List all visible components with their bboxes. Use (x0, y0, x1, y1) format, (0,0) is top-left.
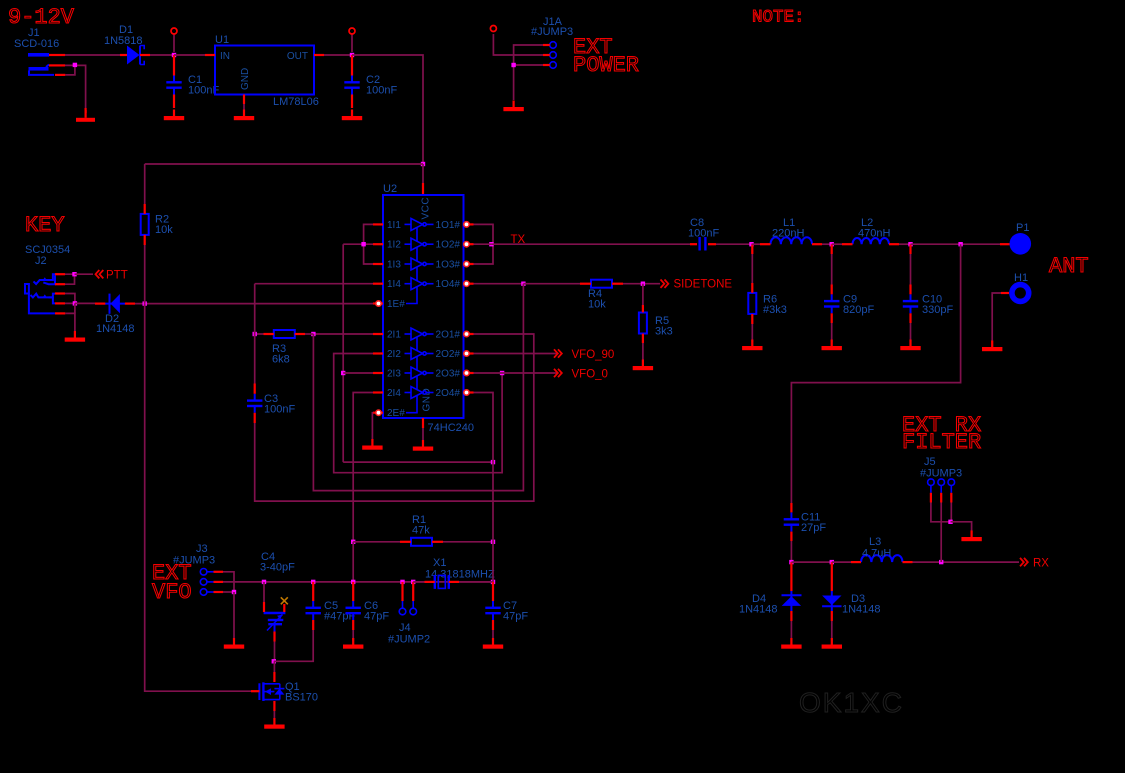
pin U2 1O3# (464, 263, 474, 265)
wire C10 to ground (910, 323, 912, 342)
pin J1A-2 (543, 54, 550, 56)
svg-text:POWER: POWER (573, 53, 639, 78)
wire 2O4 node down to osc (492, 462, 494, 582)
resistor R1 47k (411, 538, 432, 546)
diode D1 1N5818 (104, 24, 144, 65)
capacitor C7 47pF (485, 600, 528, 623)
svg-text:4.7uH: 4.7uH (862, 548, 891, 560)
svg-text:#JUMP3: #JUMP3 (531, 26, 573, 38)
svg-text:3-40pF: 3-40pF (260, 562, 295, 574)
pin U2 1I3 (373, 263, 383, 265)
net label VFO_0 (554, 369, 562, 377)
svg-text:1I3: 1I3 (387, 260, 401, 271)
pin J2-2 (55, 283, 65, 285)
wire TX to C8 (491, 243, 690, 245)
svg-text:3k3: 3k3 (655, 326, 673, 338)
junction C10 tap (908, 242, 912, 246)
wire RX tap down to C11 (791, 244, 960, 503)
ground U2 (413, 440, 433, 451)
svg-text:ANT: ANT (1049, 254, 1089, 279)
pin J2-5 (55, 312, 65, 314)
junction R5 tap (641, 282, 645, 286)
wire J5 pin3 down (950, 503, 952, 522)
wire 2O2# to VFO_90 (474, 353, 558, 355)
pin U2 2I3 (373, 372, 383, 374)
svg-text:#3k3: #3k3 (763, 304, 787, 316)
svg-text:74HC240: 74HC240 (428, 422, 474, 434)
svg-text:2O2#: 2O2# (436, 349, 461, 360)
wire C8 to L1 (716, 243, 752, 245)
svg-text:1O1#: 1O1# (436, 220, 461, 231)
connector P1 (antenna) (1000, 243, 1010, 245)
wire R3 to 2I1 (313, 333, 373, 335)
junction J1A pins 1+3 (511, 63, 515, 67)
buffer gate 7 of U2 (405, 367, 434, 379)
pin J5-3 (950, 485, 952, 492)
junction J1 pin2/pin3 (73, 63, 77, 67)
diode D3 1N4148 (822, 591, 880, 616)
ground U1 (234, 110, 254, 121)
ground J1A (503, 101, 523, 112)
ground R6 (742, 340, 762, 351)
inductor L2 470nH (853, 238, 890, 244)
pin U2 2I2 (373, 352, 383, 354)
svg-text:10k: 10k (588, 299, 606, 311)
junction TX (489, 242, 493, 246)
wire L3 to RX label (913, 561, 1020, 563)
open wire end marker (171, 28, 177, 34)
pin J4-1 (402, 601, 404, 608)
pin U2 2E# (373, 412, 383, 414)
wire R1 left (353, 541, 400, 543)
pin U2 2I4 (373, 391, 383, 393)
junction C1 node (172, 53, 176, 57)
svg-text:J5: J5 (924, 456, 936, 468)
pin U2 VCC (422, 183, 424, 195)
wire oscillator node (223, 581, 493, 583)
svg-text:100nF: 100nF (688, 228, 719, 240)
wire key line to U2 1E# (135, 303, 373, 305)
svg-text:L3: L3 (869, 536, 881, 548)
junction VCC/R2 node (421, 162, 425, 166)
junction R3 right (311, 332, 315, 336)
capacitor C10 330pF (903, 294, 954, 317)
wire 2O3# to VFO_0 (474, 372, 558, 374)
ground J1 (76, 110, 95, 122)
wire to L3 (832, 561, 851, 563)
ground Q1 (264, 718, 284, 729)
buffer gate 8 of U2 (405, 387, 434, 399)
ground R5 (633, 360, 653, 371)
svg-text:27pF: 27pF (801, 522, 826, 534)
pin J1A-3 (543, 64, 550, 66)
svg-text:FILTER: FILTER (902, 430, 981, 455)
ground C7 (483, 638, 503, 649)
wire J2 sleeve to ground (65, 313, 75, 331)
svg-text:RX: RX (1033, 558, 1049, 570)
ground J2 (65, 331, 85, 342)
wire down to U2 VCC pin (422, 164, 424, 183)
wire J1A pin1 down (514, 45, 543, 65)
connector J2 SCJ0354 (25, 244, 70, 313)
capacitor C2 100nF (344, 74, 397, 97)
svg-text:2I4: 2I4 (387, 388, 401, 399)
wire 9-12V jack to D1 (65, 54, 120, 56)
pin U2 1I1 (373, 223, 383, 225)
junction C2 node (350, 53, 354, 57)
wire J5 pin1 to pin3 (931, 503, 951, 522)
svg-text:TX: TX (511, 234, 526, 246)
inductor L1 220nH (771, 237, 813, 244)
pin U2 GND (422, 418, 424, 428)
junction 1I2/tie (361, 242, 365, 246)
svg-text:SCJ0354: SCJ0354 (25, 244, 70, 256)
svg-text:OK1XC: OK1XC (799, 687, 904, 718)
svg-text:330pF: 330pF (922, 304, 953, 316)
wire 2E# to ground (371, 413, 374, 439)
svg-text:10k: 10k (155, 224, 173, 236)
ground C1 (164, 110, 184, 121)
ground D3 (822, 638, 842, 649)
svg-text:KEY: KEY (25, 213, 65, 238)
svg-text:J4: J4 (399, 622, 411, 634)
svg-text:PTT: PTT (106, 270, 128, 282)
wire J1A pin2 to open end (493, 34, 543, 55)
wire to PTT label (75, 273, 94, 275)
pin U2 1I4 (373, 283, 383, 285)
ground C9 (822, 340, 842, 351)
svg-text:1N4148: 1N4148 (739, 604, 778, 616)
svg-text:2I2: 2I2 (387, 349, 401, 360)
pin J3-2 (207, 581, 214, 583)
wire loop B 2I2 to 2O3# (334, 354, 502, 473)
buffer gate 4 of U2 (405, 278, 434, 290)
pin U2 1E# (373, 302, 383, 304)
wire loop C 1O4# to R3/2I1 (313, 284, 523, 491)
transistor Q1 BS170 (259, 681, 318, 704)
diode D2 1N4148 (96, 294, 135, 335)
svg-text:820pF: 820pF (843, 304, 874, 316)
svg-text:BS170: BS170 (285, 692, 318, 704)
svg-text:1O3#: 1O3# (436, 260, 461, 271)
svg-text:J2: J2 (35, 255, 47, 267)
pin U2 1O2# (464, 243, 474, 245)
wire to ground (233, 592, 235, 641)
junction J5 ground node (948, 520, 952, 524)
pin U2 2O2# (464, 352, 474, 354)
trimmer capacitor C4 3-40pF (260, 551, 295, 631)
junction R3 left / C3 (253, 332, 257, 336)
buffer gate 1 of U2 (405, 218, 434, 230)
no-connect marker on C4 wiper (283, 604, 285, 612)
resistor R2 10k (141, 214, 174, 237)
svg-text:2E#: 2E# (387, 408, 405, 419)
net label SIDETONE (661, 280, 669, 288)
wire J3 pin1 down (223, 572, 234, 592)
junction PTT (72, 272, 76, 276)
connector H1 (antenna ground) (1012, 285, 1029, 302)
capacitor C5 #47pF (306, 600, 356, 623)
net label PTT (96, 270, 104, 278)
wire 6V rail to U2 VCC drop (352, 55, 423, 164)
svg-text:470nH: 470nH (858, 228, 890, 240)
open wire end marker (490, 26, 496, 32)
svg-text:P1: P1 (1016, 222, 1029, 234)
pin J2-1 (55, 273, 65, 275)
svg-text:GND: GND (240, 68, 251, 90)
wire 1I4 node down (254, 284, 256, 334)
pin U2 1O1# (464, 223, 474, 225)
wire Q1 source to ground (273, 711, 275, 722)
wire C9 to ground (831, 323, 833, 342)
wire J1 pin3 up (65, 65, 75, 75)
junction J5 tap (939, 560, 943, 564)
pin U2 2O4# (464, 391, 474, 393)
wire down to R5 (642, 284, 644, 305)
junction key/R2 (143, 301, 147, 305)
pin J1A-1 (543, 44, 550, 46)
wire J3 pin3 (223, 591, 234, 593)
wire C11 to RX line (790, 541, 792, 562)
svg-text:SIDETONE: SIDETONE (674, 279, 733, 291)
buffer gate 5 of U2 (405, 328, 434, 340)
wire down to osc node (352, 542, 354, 582)
wire R6 to ground (751, 324, 753, 342)
junction 2O3# (500, 371, 504, 375)
pin U2 1I2 (373, 243, 383, 245)
junction C4 tap (262, 580, 266, 584)
svg-text:U1: U1 (215, 34, 229, 46)
pin J2-3 (55, 292, 65, 294)
ground J5 (961, 531, 981, 542)
net label RX (1020, 558, 1028, 566)
ground 2E# (362, 439, 382, 450)
pin J1-3 (55, 74, 65, 76)
wire J2 pins3-4 joined (65, 294, 75, 304)
wire C1 node to U1 IN (174, 54, 205, 56)
capacitor C3 100nF (247, 393, 295, 416)
pin J2-4 (55, 302, 65, 304)
wire R4 to SIDETONE (623, 283, 660, 285)
wire to antenna (911, 243, 1001, 245)
regulator U1 LM78L06 (215, 34, 319, 108)
ground J3 (224, 638, 244, 649)
pin J5-2 (940, 485, 942, 492)
wire J1 pins 2-3 to ground (65, 65, 86, 112)
wire 1I2 left (343, 243, 373, 245)
wire R5 to ground (642, 343, 644, 360)
svg-text:VFO: VFO (152, 580, 192, 605)
junction R6 tap (749, 242, 753, 246)
wire node to 1I4 (255, 283, 373, 285)
wire to R4 (523, 283, 580, 285)
capacitor C11 27pF (784, 512, 827, 535)
diode D4 1N4148 (739, 591, 802, 616)
junction C9 tap (830, 242, 834, 246)
wire to 2I3 pin (343, 372, 373, 374)
junction 1O4# (521, 282, 525, 286)
ground C6 (343, 638, 363, 649)
resistor R3 6k8 (274, 330, 295, 338)
svg-text:9-12V: 9-12V (8, 5, 75, 30)
junction C6 tap (351, 580, 355, 584)
wire loop D C3 to 2O1# (255, 334, 534, 501)
inductor L3 4.7uH (861, 555, 903, 562)
wire D1 to C1 node (150, 54, 174, 56)
buffer gate 3 of U2 (405, 258, 434, 270)
svg-text:2O1#: 2O1# (436, 330, 461, 341)
svg-text:100nF: 100nF (264, 404, 295, 416)
svg-text:X1: X1 (433, 557, 446, 569)
wire H1 to ground (992, 293, 1001, 341)
wire 2I4 down to R1 (353, 393, 373, 542)
svg-text:1I4: 1I4 (387, 279, 401, 290)
connector J1A #JUMP3 (531, 16, 573, 38)
wire loop A bottom (343, 461, 493, 463)
capacitor C9 820pF (824, 294, 874, 317)
svg-text:LM78L06: LM78L06 (273, 96, 319, 108)
svg-text:1I2: 1I2 (387, 240, 401, 251)
svg-text:U2: U2 (383, 183, 397, 195)
wire PA input vertical (342, 244, 344, 462)
wire C5 bottom to Q1 node (274, 630, 313, 661)
wire key line down to Q1 gate (145, 304, 251, 692)
svg-text:#JUMP3: #JUMP3 (173, 555, 215, 567)
wire stub to open end (351, 34, 353, 52)
svg-text:H1: H1 (1014, 272, 1028, 284)
wire Q1 drain (273, 661, 275, 672)
junction key line (73, 301, 77, 305)
pin U1 OUT (314, 54, 324, 56)
svg-text:J3: J3 (196, 543, 208, 555)
wire J5 pin2 to RX line (940, 503, 942, 563)
pin U2 2O1# (464, 333, 474, 335)
wire D3 to ground (831, 621, 833, 641)
svg-text:SCD-016: SCD-016 (14, 38, 59, 50)
wire J2 pins1-2 joined (65, 274, 75, 284)
pin J5-1 (930, 485, 932, 492)
svg-text:2O3#: 2O3# (436, 369, 461, 380)
junction 2I3 tap (341, 371, 345, 375)
capacitor C8 100nF (688, 217, 719, 251)
svg-text:1I1: 1I1 (387, 220, 401, 231)
junction R1/C7 vertical (491, 540, 495, 544)
pin U1 GND (243, 95, 245, 105)
connector J1 SCD-016 (14, 27, 59, 75)
wire C7 to ground (492, 630, 494, 641)
wire R2 to key line (144, 245, 146, 304)
svg-text:OUT: OUT (287, 51, 308, 62)
svg-text:VFO_90: VFO_90 (572, 349, 615, 361)
wire 1O4# right (474, 283, 524, 285)
svg-text:2I3: 2I3 (387, 369, 401, 380)
svg-text:NOTE:: NOTE: (752, 8, 805, 28)
svg-text:1N4148: 1N4148 (842, 604, 881, 616)
junction C7/X1 node (491, 580, 495, 584)
resistor R4 10k (591, 280, 612, 288)
junction C4/C5/Q1 drain (272, 659, 276, 663)
junction J4 pin1 tap (400, 580, 404, 584)
junction J3 ground node (232, 590, 236, 594)
svg-text:100nF: 100nF (366, 85, 397, 97)
pin U2 2O3# (464, 372, 474, 374)
junction J4 pin2 tap (411, 580, 415, 584)
IC U2 74HC240 (383, 183, 474, 434)
junction loop A / C7 vertical (491, 460, 495, 464)
pin J3-3 (207, 591, 214, 593)
capacitor C6 47pF (346, 600, 390, 623)
svg-text:220nH: 220nH (772, 228, 804, 240)
svg-text:47pF: 47pF (503, 611, 528, 623)
ground H1 (982, 341, 1002, 352)
pin U2 2I1 (373, 333, 383, 335)
wire 1I1-1I3 tie (364, 224, 373, 264)
U2 enable chain group2 (406, 337, 417, 413)
wire J1A pin3 to ground (514, 65, 543, 100)
wire to ground (951, 522, 972, 531)
junction R1 left (351, 540, 355, 544)
U2 enable chain group1 (406, 228, 417, 304)
pin J1-1 (49, 54, 65, 56)
svg-text:1N5818: 1N5818 (104, 35, 143, 47)
svg-text:VCC: VCC (420, 197, 431, 220)
junction RX tap (958, 242, 962, 246)
wire VCC node to R2 (145, 163, 423, 165)
svg-text:1O2#: 1O2# (436, 240, 461, 251)
wire C6 to ground (352, 630, 354, 641)
wire key node to D2 (75, 302, 95, 304)
svg-text:VFO_0: VFO_0 (572, 369, 608, 381)
svg-text:1O4#: 1O4# (436, 279, 461, 290)
junction D3 (830, 560, 834, 564)
svg-text:47pF: 47pF (364, 611, 389, 623)
svg-text:#JUMP2: #JUMP2 (388, 634, 430, 646)
svg-text:1N4148: 1N4148 (96, 323, 135, 335)
wire C4 bottom (274, 642, 276, 662)
resistor R5 3k3 (639, 313, 673, 338)
pin J4-2 (412, 601, 414, 608)
pin J3-1 (207, 571, 214, 573)
pin J1-2 (49, 64, 65, 66)
wire VCC to R2 (144, 164, 146, 204)
crystal X1 14.31818MHZ (425, 557, 495, 589)
junction C5 tap (311, 580, 315, 584)
svg-text:1E#: 1E# (387, 299, 405, 310)
svg-text:47k: 47k (412, 525, 430, 537)
wire D4 to ground (790, 621, 792, 641)
open wire end marker (349, 28, 355, 34)
ground C10 (900, 340, 920, 351)
svg-text:2I1: 2I1 (387, 330, 401, 341)
buffer gate 6 of U2 (405, 348, 434, 360)
wire stub to open end (173, 34, 175, 52)
wire U1 OUT to C2 node (324, 54, 352, 56)
junction D4 (789, 560, 793, 564)
pin U2 1O4# (464, 283, 474, 285)
svg-text:#JUMP3: #JUMP3 (920, 468, 962, 480)
wire 2O4# down (474, 393, 494, 463)
wire RX line (791, 561, 831, 563)
resistor R6 #3k3 (748, 293, 787, 316)
wire R1 right (443, 541, 493, 543)
capacitor C1 100nF (166, 74, 219, 97)
buffer gate 2 of U2 (405, 238, 434, 250)
svg-text:2O4#: 2O4# (436, 388, 461, 399)
svg-text:IN: IN (220, 51, 230, 62)
ground D4 (781, 638, 801, 649)
pin U1 IN (205, 54, 215, 56)
svg-text:6k8: 6k8 (272, 354, 290, 366)
